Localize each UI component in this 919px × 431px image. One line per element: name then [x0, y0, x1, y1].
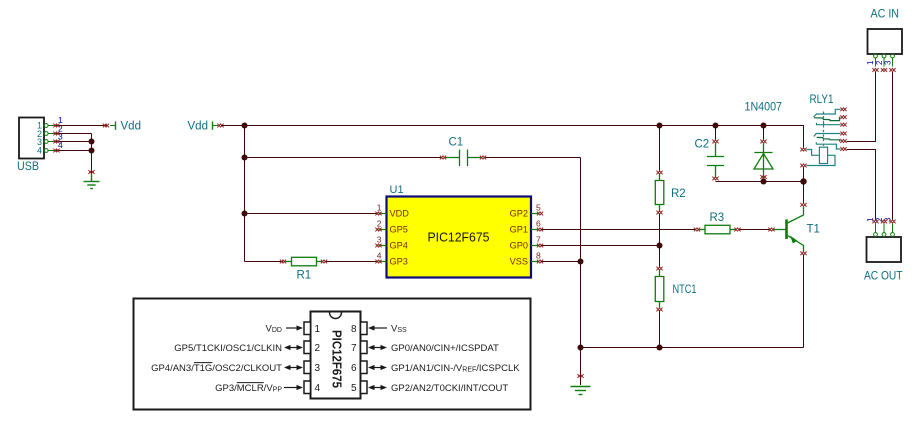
tick U1 pin8 [537, 260, 543, 264]
tick U1 pin1 [375, 212, 381, 216]
svg-text:NTC1: NTC1 [673, 284, 697, 296]
AC IN pin 3 [891, 54, 895, 66]
wire USB pin2 [56, 133, 92, 135]
pinout overline MCLR [237, 382, 264, 384]
tick relay contact1 pole [840, 123, 846, 127]
wire right vertical (C1 to ground rail) [580, 158, 582, 348]
tick AC OUT pin1 [872, 220, 878, 224]
wire U1 pin8 VSS [541, 261, 581, 263]
svg-text:RLY1: RLY1 [810, 94, 834, 106]
relay contact 2 lever [817, 137, 841, 141]
wire bottom ground rail [581, 347, 804, 349]
tick USB pin4 [53, 149, 59, 153]
pinout arrow pin5 [368, 385, 387, 390]
svg-text:GP5/T1CKI/OSC1/CLKIN: GP5/T1CKI/OSC1/CLKIN [174, 343, 282, 354]
node diode/snubber junction [761, 179, 767, 185]
svg-text:4: 4 [37, 145, 42, 155]
tick relay contact1 lever [840, 115, 846, 119]
svg-text:2: 2 [315, 343, 321, 354]
USB pin 2 stub [44, 132, 56, 136]
svg-text:GP3/MCLR/VPP: GP3/MCLR/VPP [215, 383, 282, 394]
wire relay to AC IN [847, 72, 876, 142]
svg-text:6: 6 [536, 219, 541, 229]
svg-text:1N4007: 1N4007 [745, 102, 783, 114]
svg-text:GP4: GP4 [390, 240, 408, 250]
node USB pin3 junction [89, 139, 95, 145]
svg-text:U1: U1 [390, 184, 404, 196]
tick T1 emitter [800, 251, 806, 255]
svg-text:7: 7 [536, 235, 541, 245]
svg-text:1: 1 [377, 203, 382, 213]
tick relay contact2 pole [840, 147, 846, 151]
tick NTC1 top [656, 267, 662, 271]
wire USB pin1 to Vdd terminal [56, 125, 108, 127]
thermistor NTC1 [655, 270, 664, 308]
wire R2 top [659, 126, 661, 172]
wire snubber rail [716, 181, 804, 183]
node ground rail NTC [657, 345, 663, 351]
wire USB ground vertical [91, 134, 93, 175]
wire USB pin4 [56, 150, 92, 152]
svg-text:R1: R1 [297, 270, 312, 282]
capacitor C2 [707, 143, 724, 178]
tick U1 pin4 [375, 260, 381, 264]
tick AC IN pin2 [881, 68, 887, 72]
svg-text:GP1/AN1/CIN-/VREF/ICSPCLK: GP1/AN1/CIN-/VREF/ICSPCLK [391, 363, 520, 374]
tick ground 1 [88, 170, 94, 174]
pinout pin box 6 [361, 361, 368, 374]
tick relay contact1 NC [840, 107, 846, 111]
AC OUT connector body [867, 237, 902, 262]
tick T1 base [768, 228, 774, 232]
svg-text:C1: C1 [449, 137, 464, 149]
tick USB pin2 [53, 132, 59, 136]
pinout arrow pin2 [284, 345, 303, 350]
transistor T1 [773, 207, 804, 252]
wire R1 to U1 pin4 [326, 261, 377, 263]
tick diode top [760, 140, 766, 144]
tick relay contact2 NC [840, 132, 846, 136]
USB external pin numbers [58, 115, 63, 150]
svg-text:5: 5 [536, 203, 541, 213]
svg-text:7: 7 [351, 343, 357, 354]
tick U1 pin3 [375, 244, 381, 248]
tick U1 pin5 [537, 212, 543, 216]
node USB pin4 junction [89, 148, 95, 154]
tick R1 left [280, 260, 286, 264]
tick R2 bottom [656, 211, 662, 215]
tick C2 top [712, 140, 718, 144]
tick AC OUT pin2 [881, 220, 887, 224]
svg-text:3: 3 [315, 363, 321, 374]
pinout overline T1G [194, 362, 212, 364]
relay coil left lead [807, 150, 820, 156]
relay contact 1 lever [814, 117, 841, 120]
wire emitter to ground rail [803, 255, 805, 348]
tick Vdd rail terminal [217, 124, 223, 128]
relay contact 1 pole [817, 123, 841, 125]
relay contact 1 fixed [814, 109, 841, 117]
pinout pin box 3 [304, 361, 311, 374]
pinout arrow pin8 [368, 325, 387, 330]
svg-text:3: 3 [883, 60, 892, 65]
USB pin 1 stub [44, 124, 56, 128]
svg-text:GP3: GP3 [390, 256, 408, 266]
op-amp U1 PIC12F675 body [377, 184, 541, 278]
pinout DIP notch [330, 313, 342, 319]
pinout arrow pin3 [284, 365, 303, 370]
relay coil right lead [807, 155, 836, 165]
pinout pin box 1 [304, 322, 311, 335]
wire Vdd rail top [221, 126, 804, 148]
svg-text:GP5: GP5 [390, 224, 408, 234]
svg-text:R3: R3 [710, 212, 725, 224]
svg-text:GP2: GP2 [510, 208, 528, 218]
pinout diagram frame [134, 299, 531, 410]
pinout pin box 2 [304, 341, 311, 354]
USB connector J-USB body [19, 118, 44, 159]
node VSS junction [578, 259, 584, 265]
svg-text:C2: C2 [695, 139, 710, 151]
AC IN pin numbers [866, 60, 892, 65]
AC OUT pin 2 [882, 223, 886, 236]
wire R2 to NTC bus [659, 214, 661, 267]
tick R2 top [656, 171, 662, 175]
relay RLY1 [807, 109, 841, 165]
tick R1 right [321, 260, 327, 264]
tick relay coil bottom [800, 164, 806, 168]
svg-text:R2: R2 [671, 188, 686, 200]
wire GP3 row left [245, 261, 284, 263]
wire R3 row continue [739, 229, 770, 231]
svg-text:GP0/AN0/CIN+/ICSPDAT: GP0/AN0/CIN+/ICSPDAT [391, 343, 499, 354]
wire C1 row right [485, 157, 581, 159]
tick U1 pin7 [537, 244, 543, 248]
node collector junction [800, 178, 806, 184]
wire C1 row left [245, 157, 442, 159]
node C1 row [242, 155, 248, 161]
svg-text:Vdd: Vdd [188, 121, 208, 133]
wire C2 top [715, 126, 717, 141]
wire NTC1 to ground rail [659, 311, 661, 348]
resistor R1 [285, 257, 322, 266]
svg-text:1: 1 [866, 60, 875, 65]
svg-text:6: 6 [351, 363, 357, 374]
tick relay contact2 lever [840, 139, 846, 143]
tick AC IN pin1 [872, 68, 878, 72]
AC OUT pin 1 [874, 223, 878, 236]
wire USB pin3 [56, 141, 92, 143]
AC OUT pin 3 [891, 223, 895, 236]
svg-text:GP2/AN2/T0CKI/INT/COUT: GP2/AN2/T0CKI/INT/COUT [391, 383, 508, 394]
node Vdd rail at diode [761, 123, 767, 129]
svg-text:AC IN: AC IN [871, 9, 900, 21]
node VDD pin row [242, 211, 248, 217]
power terminal Vdd (rail) [213, 122, 219, 130]
tick USB pin1 [53, 124, 59, 128]
wire ground stub [580, 348, 582, 386]
node ground rail left [578, 345, 584, 351]
pinout pin box 8 [361, 322, 368, 335]
svg-text:3: 3 [377, 235, 382, 245]
wire coil bottom link [803, 167, 805, 182]
tick C1 left [440, 156, 446, 160]
svg-text:8: 8 [351, 324, 357, 335]
relay armature dashed link [823, 112, 825, 147]
tick C1 right [480, 156, 486, 160]
wire diode top [763, 126, 765, 141]
AC IN connector body [868, 29, 903, 54]
tick AC IN pin3 [889, 68, 895, 72]
svg-text:1: 1 [315, 324, 321, 335]
pinout DIP package [311, 312, 361, 399]
pinout arrow pin4 [284, 385, 303, 390]
relay contact 2 pole [816, 142, 840, 149]
resistor R3 [699, 225, 736, 234]
wire to U1 pin1 [245, 213, 378, 215]
tick ground 2 [577, 374, 583, 378]
tick U1 pin2 [375, 228, 381, 232]
relay contact 2 fixed [814, 134, 841, 137]
relay coil [819, 147, 827, 163]
resistor R2 [655, 174, 664, 211]
svg-text:VSS: VSS [510, 256, 528, 266]
AC IN pin 2 [882, 54, 886, 66]
tick C2 bottom [712, 177, 718, 181]
tick NTC1 bottom [656, 308, 662, 312]
pinout arrow pin1 [286, 325, 303, 330]
pinout pin box 5 [361, 381, 368, 394]
svg-text:T1: T1 [807, 224, 820, 236]
tick U1 pin6 [537, 228, 543, 232]
capacitor C1 [445, 150, 481, 167]
wire U1 pin6 GP1 to R3 [541, 229, 695, 231]
svg-text:GP4/AN3/T1G/OSC2/CLKOUT: GP4/AN3/T1G/OSC2/CLKOUT [151, 363, 282, 374]
svg-text:4: 4 [315, 383, 321, 394]
svg-text:GP0: GP0 [510, 240, 528, 250]
tick AC OUT pin3 [889, 220, 895, 224]
tick relay coil top [800, 148, 806, 152]
pinout pin box 4 [304, 381, 311, 394]
pinout pin numbers [315, 324, 357, 394]
tick USB pin3 [53, 140, 59, 144]
tick diode bottom [760, 175, 766, 179]
node Vdd rail at R2 [657, 123, 663, 129]
node Vdd rail at C2 [713, 123, 719, 129]
svg-text:2: 2 [377, 219, 382, 229]
svg-text:8: 8 [536, 251, 541, 261]
node Vdd/left bus [242, 123, 248, 129]
ground symbol bottom [571, 387, 591, 395]
ground symbol under USB [84, 174, 100, 189]
wire U1 pin7 GP0 to R2 bus [541, 245, 660, 247]
USB pin 3 stub [44, 140, 56, 144]
svg-text:PIC12F675: PIC12F675 [330, 330, 345, 388]
svg-text:VDD: VDD [390, 208, 410, 218]
pinout pin box 7 [361, 341, 368, 354]
svg-text:AC OUT: AC OUT [864, 271, 903, 283]
pinout arrow pin6 [368, 365, 387, 370]
power terminal Vdd (left) [110, 122, 116, 130]
wire AC IN pin3 to AC OUT pin3 [892, 72, 894, 221]
AC IN pin 1 [874, 54, 878, 66]
pinout arrow pin7 [368, 345, 387, 350]
svg-text:Vdd: Vdd [121, 121, 141, 133]
tick Vdd left terminal [103, 124, 109, 128]
svg-text:5: 5 [351, 383, 357, 394]
diode D1 1N4007 [754, 143, 773, 178]
wire left vertical bus [244, 126, 246, 262]
wire collector link [803, 182, 805, 204]
svg-text:PIC12F675: PIC12F675 [428, 230, 490, 245]
USB pin 4 stub [44, 149, 56, 153]
svg-text:4: 4 [377, 251, 382, 261]
svg-text:USB: USB [17, 161, 39, 173]
node GP0 junction [657, 243, 663, 249]
tick R3 left [694, 228, 700, 232]
tick T1 collector [800, 203, 806, 207]
svg-text:GP1: GP1 [510, 224, 528, 234]
wire relay to AC OUT [847, 150, 876, 221]
tick R3 right [734, 228, 740, 232]
AC OUT pin numbers [866, 217, 892, 222]
